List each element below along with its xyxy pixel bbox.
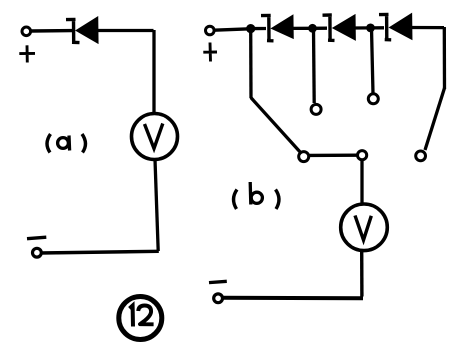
terminal T1 (+) of circuit a — [22, 27, 31, 36]
diode D4 triangle — [390, 14, 412, 39]
wire D3 to node N3 — [353, 26, 371, 29]
minus label of circuit a — [27, 237, 46, 239]
wire right corner down — [443, 27, 447, 89]
wiper contact B open circle — [358, 151, 367, 160]
wire D2 to node N2 — [291, 27, 313, 30]
diode D3 cathode bar — [323, 14, 335, 41]
wire N3 down to contact P2 — [372, 28, 374, 93]
label (a) letter a — [58, 138, 69, 149]
contact P3 open circle — [416, 151, 426, 161]
bottom wire of circuit b — [222, 296, 363, 301]
wire N2 to diode D3 — [313, 27, 327, 30]
diode D4 cathode bar — [379, 13, 391, 40]
node N2 junction dot — [308, 24, 317, 33]
figure number 12 circle — [119, 297, 162, 340]
diode D2 triangle — [272, 16, 293, 38]
diode D3 triangle — [333, 15, 355, 39]
wire T3 to node N1 — [214, 29, 250, 30]
contact P1 open circle — [311, 104, 321, 114]
diode D1 cathode bar — [66, 18, 80, 43]
node N1 junction dot — [246, 24, 255, 33]
wire N1 down — [249, 29, 253, 98]
wire diagonal N1 to wiper A — [251, 98, 301, 154]
bottom wire of circuit a — [40, 251, 159, 253]
terminal T3 (+) of circuit b — [206, 26, 215, 35]
label (b) letter b — [249, 182, 253, 205]
figure number digit 2 — [138, 306, 153, 325]
terminal T4 (-) of circuit b — [214, 294, 223, 303]
label (a) left paren — [47, 134, 50, 153]
wire D1 to corner — [96, 29, 154, 32]
wiper bar wire A to B — [309, 153, 358, 157]
node N3 junction dot — [366, 24, 375, 33]
label (b) right paren — [276, 190, 279, 210]
wire T1 to diode D1 — [31, 29, 72, 33]
wire V2 down to bottom corner — [360, 250, 364, 297]
wire N2 down to contact P1 — [312, 29, 316, 103]
wire N1 to diode D2 — [251, 27, 266, 30]
label (a) right paren — [82, 134, 85, 153]
wiper contact A open circle — [299, 152, 309, 162]
voltmeter V1 — [132, 114, 178, 160]
wire corner down to voltmeter V1 — [152, 30, 155, 114]
plus label of circuit a — [19, 45, 35, 62]
plus label of circuit b — [203, 43, 217, 62]
label (b) left paren — [234, 190, 237, 210]
wire contact B down to voltmeter V2 — [360, 160, 363, 205]
minus label of circuit b — [209, 281, 227, 282]
wire diagonal down to contact P3 — [425, 88, 445, 150]
wire N3 to diode D4 — [371, 26, 384, 29]
diode D2 cathode bar — [261, 14, 274, 42]
diode D1 triangle — [77, 17, 98, 43]
wire D4 to right corner — [410, 26, 444, 29]
wire V1 down to bottom corner — [155, 160, 158, 252]
contact P2 open circle — [368, 94, 378, 104]
figure number digit 1 — [130, 306, 134, 327]
terminal T2 (-) of circuit a — [33, 248, 42, 257]
voltmeter V2 — [341, 204, 388, 251]
